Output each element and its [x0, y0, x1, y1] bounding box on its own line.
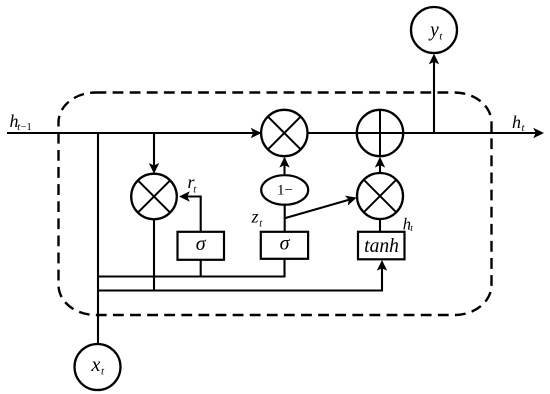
svg-text:σ: σ: [196, 233, 207, 255]
y_t circle: [411, 7, 457, 53]
svg-text:1−: 1−: [277, 182, 293, 198]
arrowhead: into bottom of tanh box: [377, 260, 387, 271]
multiplier circle (reset gate): [131, 174, 177, 220]
multiplier circle on main line (z * h): [261, 110, 307, 156]
wire: z_t diagonal to candidate multiplier: [286, 199, 353, 218]
wire: bus B (to tanh): [98, 263, 382, 291]
svg-text:x: x: [91, 354, 101, 376]
wire: 1-z ellipse up to multiplier: [283, 158, 285, 174]
wire: sigma r output up and left into reset multiplier: [182, 197, 201, 233]
wire: tanh output up to candidate multiplier: [379, 219, 381, 232]
svg-text:z: z: [251, 207, 259, 227]
wire: output branch up to y_t: [433, 57, 435, 133]
arrowhead: into right side of reset multiplier: [179, 191, 190, 201]
wire: x_t vertical input line: [97, 133, 99, 345]
arrowhead: into bottom of y_t circle: [429, 54, 439, 65]
svg-text:t: t: [410, 224, 413, 234]
arrowhead: into bottom of multiplier on main line: [279, 157, 289, 168]
svg-text:−1: −1: [21, 122, 32, 133]
wire: reset multiplier output down to bus B: [153, 218, 155, 292]
arrowhead: into top of reset multiplier: [149, 163, 159, 174]
dashed GRU cell boundary: [59, 93, 492, 316]
tanh box: [358, 232, 405, 259]
x_t circle: [75, 344, 121, 390]
wire: main h line from h_{t-1} to h_t: [7, 132, 536, 134]
wire: candidate multiplier up to adder: [379, 159, 381, 173]
arrowhead: into bottom of adder: [375, 157, 385, 168]
adder circle on main line: [357, 110, 403, 156]
svg-text:σ: σ: [280, 232, 291, 254]
wire: sigma z bottom stub to bus A: [283, 259, 285, 278]
wire: bus A (x_t to sigma gates): [98, 275, 285, 277]
arrowhead: main line into reset-path multiplier U1: [251, 128, 262, 138]
1-minus ellipse: [261, 175, 308, 205]
wire: h_{t-1} branch down into reset multiplier: [153, 133, 155, 170]
svg-text:tanh: tanh: [364, 236, 399, 257]
sigma box (reset gate): [178, 232, 225, 260]
arrowhead: into left side of candidate multiplier: [345, 193, 358, 206]
wire: sigma r bottom stub to bus A: [200, 260, 202, 278]
svg-text:h: h: [512, 112, 521, 132]
arrowhead: h_t output (right end of main line): [533, 128, 544, 138]
wire: ellipse bottom down to sigma z box: [284, 204, 286, 232]
sigma box (update gate z): [261, 232, 308, 259]
svg-text:y: y: [428, 20, 439, 41]
multiplier circle (candidate h): [357, 173, 403, 219]
